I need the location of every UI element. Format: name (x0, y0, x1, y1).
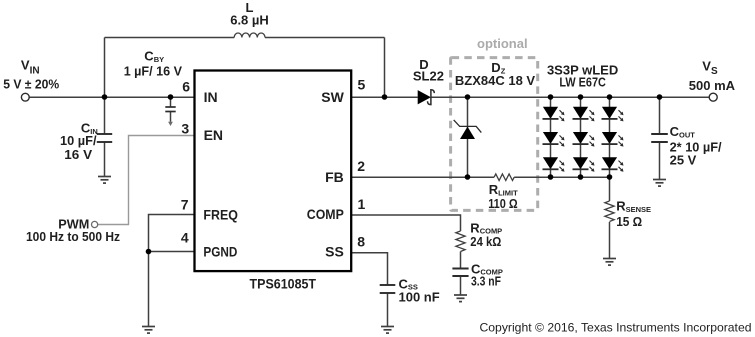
svg-text:16 V: 16 V (64, 147, 92, 162)
wire VIN to IC IN pin 6 (29, 96, 194, 98)
svg-text:3.3 nF: 3.3 nF (471, 274, 501, 289)
node zener bottom junction (465, 174, 471, 180)
wire zener branch (467, 97, 469, 177)
wire C_SS to ground (387, 293, 389, 326)
wire FREQ pin 7 (149, 215, 195, 252)
node VS terminal (709, 93, 717, 101)
wire PGND node to ground (148, 252, 150, 327)
wire diode cathode to VS terminal (431, 96, 709, 98)
LED D6 (col2 row3) (573, 157, 595, 172)
wire LED column 2 (580, 97, 582, 177)
wire R_SENSE top (609, 177, 611, 201)
resistor R_LIMIT (494, 174, 514, 181)
node LED col2 bottom junction (578, 174, 584, 180)
wire C_OUT bottom to ground (659, 142, 661, 179)
svg-text:8: 8 (357, 234, 365, 250)
svg-text:5: 5 (358, 77, 366, 93)
svg-text:1 µF/ 16 V: 1 µF/ 16 V (124, 64, 183, 79)
wire SW pin 5 to diode anode (351, 96, 418, 98)
node LED col2 top junction (578, 94, 584, 100)
resistor R_COMP (456, 231, 465, 251)
wire C_BY stem top (170, 97, 172, 107)
svg-text:500 mA: 500 mA (689, 78, 736, 93)
svg-text:6: 6 (182, 79, 190, 95)
svg-text:3: 3 (181, 120, 189, 136)
LED D2 (col1 row2) (543, 132, 565, 147)
svg-text:EN: EN (204, 127, 223, 143)
diode D SL22 (418, 90, 435, 105)
node C_BY junction (168, 94, 174, 100)
svg-text:SW: SW (321, 89, 344, 105)
svg-text:optional: optional (477, 36, 528, 51)
wire LED column 1 (550, 97, 552, 177)
wire top loop right vertical down to SW node (384, 38, 386, 98)
svg-text:100 nF: 100 nF (399, 290, 440, 305)
node VIN terminal (21, 93, 29, 101)
node VIN rail / top loop junction (102, 94, 108, 100)
svg-text:SL22: SL22 (413, 69, 444, 84)
node PWM terminal (92, 221, 98, 227)
node LED col3 top junction (607, 94, 613, 100)
wire COMP pin 1 to R_COMP (351, 215, 460, 231)
ground (C_OUT) (653, 180, 666, 187)
svg-text:1: 1 (358, 196, 366, 212)
LED D3 (col1 row3) (543, 157, 565, 172)
svg-text:15 Ω: 15 Ω (616, 214, 642, 229)
ground (C_IN) (98, 177, 111, 184)
svg-text:2: 2 (357, 158, 365, 174)
svg-text:TPS61085T: TPS61085T (250, 276, 317, 292)
ground (C_SS) (381, 327, 394, 334)
node SW / inductor junction (382, 94, 388, 100)
svg-text:24 kΩ: 24 kΩ (470, 234, 501, 249)
svg-text:4: 4 (181, 229, 189, 245)
LED D1 (col1 row1) (543, 107, 565, 122)
svg-text:COMP: COMP (307, 206, 344, 222)
LED D7 (col3 row1) (602, 107, 624, 122)
inductor L coil (234, 33, 265, 38)
svg-text:PGND: PGND (203, 243, 237, 259)
svg-text:100 Hz to 500 Hz: 100 Hz to 500 Hz (26, 229, 120, 244)
wire top loop horizontal left of inductor (105, 37, 235, 39)
LED D4 (col2 row1) (573, 107, 595, 122)
wire top loop left vertical (104, 38, 106, 98)
ground (R_SENSE) (603, 259, 616, 266)
capacitor C_SS plates (380, 285, 396, 293)
svg-text:IN: IN (204, 89, 218, 105)
wire C_IN top (104, 97, 106, 134)
IC box U1 TPS61085T (195, 71, 352, 272)
wire C_IN bottom to ground (104, 142, 106, 176)
wire top loop horizontal right of inductor (265, 37, 385, 39)
wire C_OUT top (659, 97, 661, 134)
ground arrow (C_BY) (168, 122, 173, 126)
node LED col1 bottom junction (548, 174, 554, 180)
LED D5 (col2 row2) (573, 132, 595, 147)
node C_OUT top junction (657, 94, 663, 100)
capacitor C_BY plates (165, 107, 175, 112)
wire C_COMP to ground (460, 276, 462, 295)
LED D8 (col3 row2) (602, 132, 624, 147)
node LED col1 top junction (548, 94, 554, 100)
wire FB pin 2 to R_LIMIT (351, 176, 494, 178)
wire R_COMP to C_COMP (460, 252, 462, 269)
wire R_SENSE bottom to ground (609, 222, 611, 258)
node zener top junction (465, 94, 471, 100)
node FREQ/PGND junction (146, 249, 152, 255)
svg-text:FB: FB (325, 169, 344, 185)
capacitor C_OUT plates (651, 134, 668, 142)
node LED col3 bottom junction (607, 174, 613, 180)
resistor R_SENSE (605, 201, 614, 221)
svg-text:5 V ± 20%: 5 V ± 20% (3, 76, 59, 91)
wire PGND pin 4 (149, 251, 195, 253)
LED D9 (col3 row3) (602, 157, 624, 172)
wire LED column 3 (609, 97, 611, 177)
svg-text:LW E67C: LW E67C (559, 74, 606, 89)
zener diode DZ (454, 120, 482, 139)
svg-text:6.8 µH: 6.8 µH (230, 13, 269, 28)
svg-text:SS: SS (325, 244, 344, 260)
wire C_BY stem bottom (170, 112, 172, 122)
svg-text:7: 7 (181, 197, 189, 213)
wire R_LIMIT to R_SENSE node (LED bottom rail) (514, 176, 609, 178)
svg-text:110 Ω: 110 Ω (488, 196, 518, 211)
svg-text:FREQ: FREQ (203, 206, 238, 222)
wire SS pin 8 to C_SS (351, 253, 387, 285)
capacitor C_IN plates (97, 134, 112, 142)
wire EN pin 3 from PWM terminal (98, 136, 195, 225)
svg-text:10 µF/: 10 µF/ (60, 133, 97, 148)
capacitor C_COMP plates (452, 269, 468, 277)
optional dashed box (451, 58, 538, 211)
svg-text:Copyright © 2016, Texas Instru: Copyright © 2016, Texas Instruments Inco… (480, 320, 752, 334)
ground (PGND) (142, 327, 155, 334)
svg-text:BZX84C 18 V: BZX84C 18 V (455, 73, 536, 88)
svg-text:25 V: 25 V (670, 153, 697, 168)
ground (C_COMP) (454, 295, 467, 302)
